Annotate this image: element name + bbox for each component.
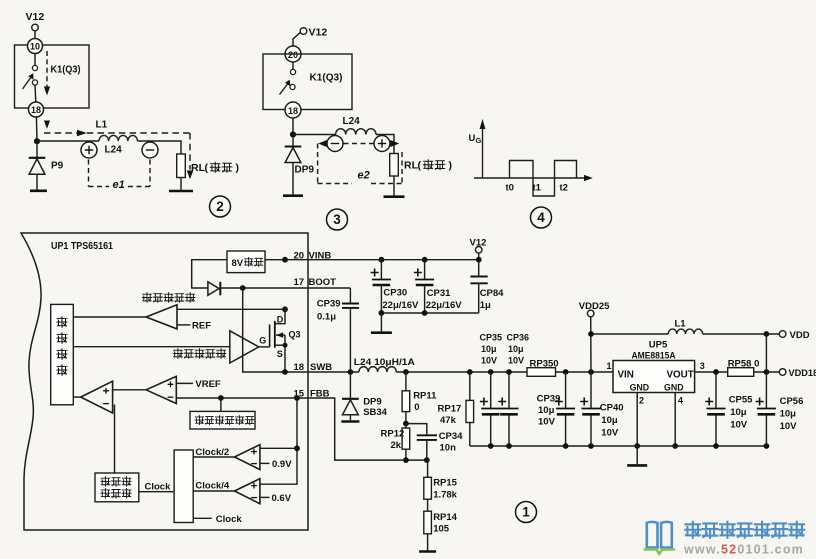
resistor RP14 105: [427, 499, 429, 511]
svg-text:L24: L24: [343, 116, 361, 127]
relay K1 box: [263, 54, 352, 110]
capacitor CP55 10u/10V: [715, 372, 717, 409]
capacitor CP34 10n: [406, 424, 427, 436]
svg-text:RP350: RP350: [530, 358, 559, 369]
circled number 2: [210, 196, 231, 217]
svg-text:RP11: RP11: [413, 391, 437, 402]
wire VOUT: [695, 371, 728, 373]
svg-text:V12: V12: [26, 11, 45, 23]
svg-text:3: 3: [700, 361, 705, 371]
svg-text:V12: V12: [309, 27, 328, 39]
current direction arrows: [318, 140, 327, 147]
wire to sawtooth generator: [114, 405, 116, 474]
capacitor CP84 1u: [478, 260, 480, 277]
switch contacts: [32, 65, 37, 70]
svg-text:DP9: DP9: [295, 165, 315, 176]
svg-text:P9: P9: [51, 161, 64, 172]
svg-text:17: 17: [294, 277, 305, 288]
resistor RP15 1.78k: [427, 460, 429, 477]
ground: [30, 190, 47, 193]
watermark logo: open book icon: [647, 522, 672, 548]
svg-text:VDD: VDD: [790, 330, 810, 341]
dashed current path e1 with arrows: [44, 121, 50, 129]
svg-text:2k: 2k: [391, 440, 402, 451]
block compensation & soft start (补偿与软启动): [220, 398, 222, 411]
svg-text:Q3: Q3: [289, 330, 301, 340]
ground: [636, 446, 638, 464]
svg-text:VOUT: VOUT: [667, 369, 694, 380]
wire: [34, 85, 37, 102]
svg-text:GND: GND: [664, 383, 684, 393]
svg-text:CP30: CP30: [383, 288, 407, 299]
wire: [138, 141, 182, 154]
svg-text:1μ: 1μ: [480, 300, 491, 311]
svg-text:RP15: RP15: [433, 478, 457, 489]
svg-text:RP17: RP17: [438, 404, 462, 415]
capacitor CP39 10u/10V (output side): [563, 369, 569, 375]
source node +: [81, 142, 97, 158]
node VDD18: [779, 369, 786, 376]
wire: [260, 398, 297, 484]
svg-text:www.520101.com: www.520101.com: [683, 543, 804, 557]
svg-text:2: 2: [639, 395, 644, 405]
svg-text:RP12: RP12: [381, 429, 405, 440]
square wave: [510, 161, 577, 197]
wire ground rail: [470, 445, 767, 447]
resistor RL (load): [177, 154, 186, 178]
wire: [427, 534, 429, 551]
svg-text:18: 18: [31, 105, 41, 115]
svg-text:(: (: [205, 162, 209, 174]
switch contacts: [290, 69, 295, 74]
svg-text:0: 0: [414, 402, 419, 413]
svg-text:10V: 10V: [780, 421, 798, 432]
svg-text:CP39: CP39: [317, 299, 341, 310]
block sawtooth generator (锯齿波发生器): [95, 473, 139, 502]
svg-text:Clock: Clock: [216, 514, 243, 525]
svg-text:10μ: 10μ: [730, 407, 747, 418]
svg-text:t0: t0: [506, 183, 514, 194]
svg-text:47k: 47k: [440, 415, 457, 426]
junction: [403, 421, 409, 427]
svg-text:10μ: 10μ: [538, 405, 555, 416]
diode P9: [36, 141, 38, 158]
svg-text:10μ: 10μ: [481, 344, 497, 354]
svg-text:FBB: FBB: [310, 388, 330, 399]
capacitor CP56 10u/10V: [765, 372, 767, 409]
svg-text:10μ: 10μ: [508, 344, 524, 354]
svg-text:10V: 10V: [481, 356, 497, 366]
svg-text:RL: RL: [404, 160, 419, 172]
svg-text:U: U: [469, 133, 476, 144]
junction: [240, 285, 246, 291]
svg-text:REF: REF: [192, 320, 211, 331]
wire: [34, 54, 36, 66]
resistor RP17 47k: [467, 369, 473, 375]
wire: [180, 178, 182, 191]
ground: [380, 313, 382, 332]
capacitor CP31 22u/16V: [424, 260, 426, 280]
svg-text:G: G: [476, 136, 482, 145]
svg-text:G: G: [259, 336, 266, 346]
svg-text:1: 1: [607, 361, 612, 371]
op-amp VREF comparator: [146, 376, 176, 403]
op-amp current comparator: [146, 305, 177, 329]
inductor L24: [99, 135, 138, 141]
svg-text:0.6V: 0.6V: [272, 493, 292, 504]
resistor RP12 2k: [402, 428, 410, 449]
svg-text:S: S: [277, 349, 283, 359]
svg-text:BOOT: BOOT: [309, 277, 337, 288]
svg-text:UP1 TPS65161: UP1 TPS65161: [51, 241, 113, 252]
svg-text:10V: 10V: [508, 356, 524, 366]
capacitor CP30 22u/16V: [380, 260, 382, 280]
wire: [293, 32, 301, 46]
dashed box e2: [317, 144, 319, 184]
diode DP9 SB34: [349, 372, 351, 399]
svg-text:10μ: 10μ: [780, 408, 797, 419]
watermark text 家电维修资料网: [685, 522, 700, 538]
svg-text:e1: e1: [113, 179, 125, 191]
svg-text:10V: 10V: [538, 417, 556, 428]
svg-text:SWB: SWB: [310, 362, 332, 373]
pin 15 FBB wire: [176, 398, 427, 460]
svg-text:CP35: CP35: [480, 333, 503, 343]
wire Clock: [139, 491, 174, 493]
svg-text:RP14: RP14: [433, 512, 457, 523]
capacitor CP35 10u/10V: [488, 369, 494, 375]
svg-text:Clock: Clock: [145, 482, 172, 493]
op-amp Clock/2 comparator 0.9V: [235, 445, 260, 470]
ground: [419, 550, 436, 553]
pin 20: [285, 46, 301, 62]
svg-text:3: 3: [333, 212, 341, 227]
svg-text:): ): [449, 160, 453, 172]
wire Clock output: [193, 517, 212, 519]
relay K1 box: [15, 45, 90, 108]
op IC UP1 TPS65161 boundary (torn-edge box): [21, 233, 308, 530]
svg-text:18: 18: [294, 362, 305, 373]
wire to inductor: [37, 140, 99, 142]
wire: [292, 162, 294, 194]
junction: [282, 257, 288, 263]
svg-text:22μ/16V: 22μ/16V: [426, 300, 463, 311]
svg-text:UP5: UP5: [649, 339, 668, 350]
wire bottom rail of input caps: [381, 312, 478, 314]
label current comparator (电流比较器): [142, 293, 151, 303]
svg-text:4: 4: [678, 395, 683, 405]
svg-text:VREF: VREF: [195, 379, 221, 390]
svg-text:105: 105: [433, 523, 450, 534]
op-amp Clock/4 comparator 0.6V: [235, 479, 260, 504]
pin 17 BOOT wire: [220, 287, 350, 289]
pin 10: [28, 39, 43, 54]
svg-text:CP56: CP56: [780, 396, 804, 407]
svg-text:4: 4: [537, 210, 545, 225]
svg-text:K1(Q3): K1(Q3): [310, 73, 343, 84]
wire: [34, 31, 36, 39]
pin 2/4 ground stems: [636, 393, 638, 447]
ground: [283, 194, 303, 197]
resistor RL (load): [390, 154, 399, 177]
svg-text:CP31: CP31: [427, 288, 451, 299]
ground: [169, 190, 193, 193]
node V12 (circuit 3): [300, 28, 307, 35]
svg-text:GND: GND: [630, 383, 650, 393]
svg-text:1: 1: [522, 505, 530, 520]
wire: [393, 176, 395, 196]
svg-text:CP40: CP40: [600, 403, 624, 414]
circled number 1: [516, 502, 537, 523]
wire: [292, 118, 294, 135]
svg-text:): ): [236, 162, 240, 174]
wire VDD to CP56: [765, 334, 767, 372]
svg-text:10V: 10V: [730, 419, 748, 430]
svg-text:t1: t1: [533, 183, 542, 194]
capacitor CP39 0.1u (bootstrap): [349, 288, 351, 304]
transistor Q3 (internal MOSFET): [275, 309, 285, 323]
svg-text:RP58 0: RP58 0: [728, 358, 760, 369]
wire SWB rail: [396, 371, 527, 373]
svg-text:VIN: VIN: [618, 369, 634, 380]
source node -: [142, 142, 158, 158]
svg-text:t2: t2: [560, 183, 568, 194]
junction: [34, 138, 40, 144]
resistor RP350: [527, 368, 556, 377]
svg-text:Clock/4: Clock/4: [195, 481, 230, 492]
pin 20 VINB wire: [265, 259, 479, 261]
bootstrap diode: [208, 282, 219, 296]
resistor RP58 0: [728, 368, 754, 377]
svg-text:8V: 8V: [232, 258, 244, 269]
svg-text:CP84: CP84: [480, 288, 504, 299]
junctions on VINB rail: [379, 257, 385, 263]
wire: [35, 117, 38, 141]
wire Clock/4: [193, 490, 234, 492]
switch actuator arrow: [23, 78, 31, 90]
wire boot-to-swb: [243, 288, 285, 372]
svg-text:10: 10: [30, 42, 40, 52]
capacitor CP40 10u/10V: [588, 369, 594, 375]
circled number 4: [531, 207, 552, 228]
svg-text:18: 18: [288, 106, 298, 116]
block 8V reference (8V基准): [227, 251, 265, 273]
svg-text:VINB: VINB: [309, 251, 332, 262]
ground: [384, 195, 405, 198]
svg-text:CP39: CP39: [537, 394, 561, 405]
block clock divider: [174, 450, 193, 523]
dashed box e1: [88, 160, 90, 187]
svg-text:2: 2: [216, 199, 224, 214]
pin 18 SWB wire: [285, 371, 359, 373]
junction: [290, 131, 296, 137]
svg-text:L24: L24: [105, 145, 123, 156]
svg-text:K1(Q3): K1(Q3): [51, 65, 81, 76]
junctions on FBB line: [403, 457, 409, 463]
resistor RP11 0: [403, 369, 409, 375]
diode DP9: [292, 135, 294, 147]
pin 18: [285, 102, 301, 118]
svg-text:L1: L1: [96, 120, 108, 131]
svg-text:10V: 10V: [601, 428, 619, 439]
source node -: [327, 136, 343, 152]
svg-text:RL: RL: [191, 162, 206, 174]
switch actuator arrow: [280, 84, 288, 95]
svg-text:D: D: [277, 314, 284, 324]
wire: [292, 62, 294, 69]
node VDD: [779, 331, 786, 338]
svg-text:0.1μ: 0.1μ: [317, 312, 336, 323]
svg-text:CP34: CP34: [439, 431, 463, 442]
svg-text:VDD18: VDD18: [789, 368, 816, 378]
svg-text:SB34: SB34: [363, 407, 387, 418]
svg-text:10μ: 10μ: [601, 415, 618, 426]
waveform UG axes: [482, 127, 484, 178]
op-amp error amplifier (误差放大器): [230, 331, 259, 363]
circled number 3: [327, 209, 348, 230]
K1 coil actuation dashed arrow: [46, 51, 48, 87]
svg-text:20: 20: [288, 50, 298, 60]
svg-text:L1: L1: [675, 319, 687, 330]
wire Clock/2: [193, 456, 234, 458]
svg-text:CP55: CP55: [729, 394, 753, 405]
svg-text:0.9V: 0.9V: [272, 459, 292, 470]
svg-text:CP36: CP36: [507, 333, 530, 343]
wire: [376, 135, 394, 154]
pin 18: [29, 102, 44, 117]
svg-text:(: (: [418, 160, 422, 172]
svg-text:20: 20: [294, 251, 305, 262]
wire: [754, 371, 780, 373]
block logic control (逻辑控制): [51, 304, 74, 404]
svg-text:e2: e2: [358, 170, 370, 182]
wire 8V ref loop: [192, 260, 227, 288]
capacitor CP36 10u/10V: [506, 369, 512, 375]
source node +: [374, 136, 390, 152]
svg-text:1.78k: 1.78k: [433, 490, 457, 501]
wire: [36, 174, 38, 189]
wire to inductor: [293, 134, 336, 136]
inductor L24: [336, 129, 376, 135]
wire: [73, 346, 230, 348]
svg-text:22μ/16V: 22μ/16V: [382, 300, 419, 311]
svg-text:10n: 10n: [440, 443, 457, 454]
inductor L1: [591, 333, 668, 335]
svg-text:Clock/2: Clock/2: [195, 447, 229, 458]
op-amp PWM comparator: [81, 381, 113, 413]
svg-text:VDD25: VDD25: [579, 301, 610, 312]
